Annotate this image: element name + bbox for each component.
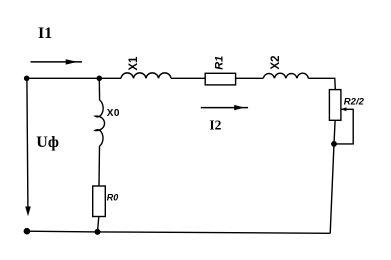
node A top-left junction <box>24 76 30 82</box>
svg-text:I1: I1 <box>38 25 52 42</box>
svg-text:R2/2: R2/2 <box>344 97 365 108</box>
inductor X1 <box>121 73 171 78</box>
svg-text:I2: I2 <box>209 118 221 133</box>
wire X0 to R0 <box>98 146 101 186</box>
resistor R1 <box>205 73 235 85</box>
svg-text:X1: X1 <box>128 56 140 71</box>
wire node E to bottom-right corner <box>330 144 334 233</box>
node C bottom-left junction <box>24 228 31 235</box>
svg-text:X0: X0 <box>107 108 120 119</box>
inductor X0 <box>95 100 104 146</box>
current arrow I1 <box>31 59 83 64</box>
svg-text:R1: R1 <box>213 56 225 70</box>
wire bottom <box>27 231 330 233</box>
svg-text:R0: R0 <box>107 193 119 203</box>
node D bottom junction of magnetizing branch <box>95 229 101 235</box>
svg-text:Uф: Uф <box>36 134 59 151</box>
wire X2 to top-right corner <box>308 78 335 89</box>
voltage arrow Uf (left side) <box>25 78 31 216</box>
resistor R2/2 <box>329 90 341 121</box>
wire X1 to R1 <box>171 77 205 79</box>
inductor X2 <box>263 73 308 78</box>
wire R0 to node D <box>98 217 99 232</box>
node B top junction of magnetizing branch <box>97 76 103 82</box>
tap arrow on R2/2 <box>341 107 347 111</box>
wire R2/2 bottom to node E <box>334 120 335 144</box>
wire tap shunt: right side loop to node E <box>334 109 353 144</box>
wire R1 to X2 <box>236 77 264 79</box>
resistor R0 <box>93 186 106 217</box>
svg-text:X2: X2 <box>270 56 282 70</box>
wire top: node A to X1 <box>27 77 121 79</box>
node E shunt junction <box>331 141 337 147</box>
current arrow I2 <box>201 105 248 110</box>
wire node B to X0 <box>98 78 100 100</box>
